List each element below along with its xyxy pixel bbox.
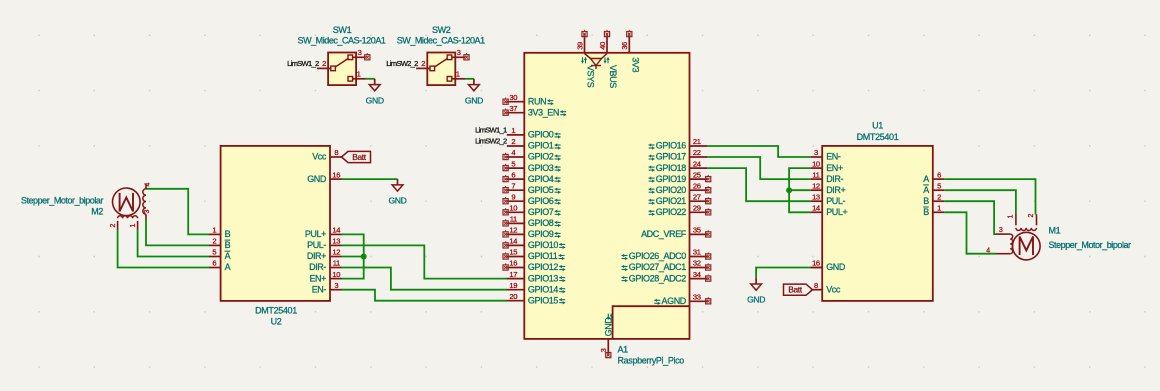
svg-text:U1: U1 <box>872 121 883 131</box>
ic A1 pin 24 GPIO18 <box>690 167 708 169</box>
switch SW1 throw contact pin1 <box>348 77 353 82</box>
ic U2 pin 1 B <box>209 233 221 235</box>
motor M1 coil pin 1 <box>1015 214 1017 225</box>
ic A1 pin 27 GPIO21 <box>690 200 708 202</box>
ic A1 pin 10 GPIO7 <box>507 211 525 213</box>
svg-text:GPIO27_ADC1: GPIO27_ADC1 <box>629 262 687 272</box>
ic A1 pin 2 GPIO1 <box>507 145 525 147</box>
switch SW2 pin 1 <box>452 78 465 80</box>
svg-text:GPIO2: GPIO2 <box>528 152 554 162</box>
wire Pico GPIO16 to U1 EN- <box>707 146 811 157</box>
ground symbol at U1 GND <box>755 278 757 284</box>
svg-text:GPIO12: GPIO12 <box>528 262 559 272</box>
motor M2 coil A winding <box>143 189 146 215</box>
svg-text:7: 7 <box>511 181 515 190</box>
svg-text:26: 26 <box>693 181 701 190</box>
switch SW1 pin 2 <box>317 67 331 69</box>
motor M2 body circle <box>113 188 141 216</box>
svg-text:6: 6 <box>511 170 515 179</box>
svg-text:GPIO10: GPIO10 <box>528 240 559 250</box>
ic U1 pin 13 PUL- <box>811 200 823 202</box>
svg-text:PUL+: PUL+ <box>305 229 326 239</box>
svg-text:A: A <box>923 185 929 195</box>
svg-text:SW1: SW1 <box>333 25 352 35</box>
switch SW1 pin 3 <box>353 56 366 58</box>
wire U2 EN- to Pico GPIO15 <box>342 290 508 301</box>
motor M2 coil pin 4 <box>145 184 147 189</box>
ic U2 pin 14 PUL+ <box>330 233 342 235</box>
svg-text:RUN: RUN <box>528 96 546 106</box>
ic U2 pin 8 Vcc <box>330 156 342 158</box>
svg-text:17: 17 <box>509 270 517 279</box>
svg-text:13: 13 <box>812 192 820 201</box>
ground symbol at SW1 pin1 <box>374 79 376 85</box>
ic U2 pin 5 A~ <box>209 256 221 258</box>
svg-text:16: 16 <box>509 259 517 268</box>
global label Batt at U1 Vcc <box>784 284 813 295</box>
ic U1 DMT25401 body <box>822 146 933 301</box>
svg-text:3: 3 <box>999 227 1003 234</box>
ic U2 pin 6 A <box>209 267 221 269</box>
wire Pico GPIO18 to U1 PUL- <box>707 168 811 201</box>
svg-text:2: 2 <box>110 224 117 228</box>
ic U2 pin 11 DIR- <box>330 267 342 269</box>
svg-text:15: 15 <box>509 248 517 257</box>
ic U1 pin 11 DIR- <box>811 178 823 180</box>
switch SW1 pin 1 <box>353 78 366 80</box>
ic U1 pin 10 EN+ <box>811 167 823 169</box>
ic A1 pin 11 GPIO8 <box>507 222 525 224</box>
svg-text:PUL-: PUL- <box>307 240 326 250</box>
svg-text:21: 21 <box>693 137 701 146</box>
ic U2 pin 12 DIR+ <box>330 256 342 258</box>
svg-text:A: A <box>225 251 231 261</box>
svg-text:1: 1 <box>1007 215 1014 219</box>
svg-text:11: 11 <box>333 259 340 268</box>
ic U1 pin 14 PUL+ <box>811 211 823 213</box>
wire SW2 pin1 to ground <box>465 78 474 80</box>
svg-text:14: 14 <box>509 237 517 246</box>
wire Pico GPIO17 to U1 DIR- <box>707 157 811 179</box>
junction on U2 DIR+ bus <box>361 254 367 260</box>
svg-text:33: 33 <box>693 293 701 302</box>
wire M2 coilA pin3 to U2 pin2 ~B <box>146 219 210 245</box>
svg-text:10: 10 <box>332 270 340 279</box>
ic A1 pin 14 GPIO10 <box>507 244 525 246</box>
svg-text:AGND: AGND <box>661 296 686 306</box>
motor M1 coil A winding <box>1016 228 1037 231</box>
svg-text:PUL+: PUL+ <box>826 207 847 217</box>
svg-text:GPIO15: GPIO15 <box>528 295 559 305</box>
svg-text:24: 24 <box>693 159 701 168</box>
wire U2 GND pin16 to ground <box>342 178 398 180</box>
svg-text:1: 1 <box>130 224 137 228</box>
motor M1 coil pin 4 <box>996 253 1010 255</box>
ic A1 pin 40 VBUS <box>606 35 608 53</box>
ic U1 pin 2 B <box>933 200 945 202</box>
svg-text:GPIO4: GPIO4 <box>528 174 554 184</box>
ic A1 pin 17 GPIO13 <box>507 278 525 280</box>
svg-text:8: 8 <box>334 148 338 157</box>
svg-text:Vcc: Vcc <box>826 284 841 294</box>
svg-text:GPIO16: GPIO16 <box>656 141 687 151</box>
wire SW1 pin1 to ground <box>366 78 375 80</box>
switch SW1 body <box>328 53 356 86</box>
switch SW1 lever <box>335 58 349 67</box>
svg-text:U2: U2 <box>271 317 282 327</box>
svg-text:DMT25401: DMT25401 <box>857 132 899 142</box>
svg-text:LimSW1_1: LimSW1_1 <box>475 126 507 135</box>
ic A1 pin 15 GPIO11 <box>507 256 525 258</box>
svg-text:12: 12 <box>509 226 517 235</box>
svg-text:LimSW2_2: LimSW2_2 <box>386 59 418 68</box>
svg-text:EN-: EN- <box>312 284 327 294</box>
wire U1 GND pin16 to ground <box>756 268 822 279</box>
ic U2 pin 10 EN+ <box>330 278 342 280</box>
ic A1 pin 9 GPIO6 <box>507 200 525 202</box>
motor M1 body circle <box>1013 232 1041 260</box>
ground symbol at U2 GND <box>397 179 399 185</box>
svg-text:GPIO8: GPIO8 <box>528 218 554 228</box>
ic U1 pin 6 A <box>933 178 945 180</box>
svg-text:GND: GND <box>366 95 384 105</box>
svg-text:1: 1 <box>357 69 361 78</box>
ic U2 pin 3 EN- <box>330 289 342 291</box>
svg-text:GPIO7: GPIO7 <box>528 207 554 217</box>
ic U1 pin 12 DIR+ <box>811 189 823 191</box>
svg-text:1: 1 <box>937 204 941 213</box>
svg-text:A: A <box>225 262 231 272</box>
svg-text:5: 5 <box>511 159 515 168</box>
svg-text:4: 4 <box>511 148 515 157</box>
svg-text:M2: M2 <box>91 207 103 217</box>
svg-text:6: 6 <box>937 170 941 179</box>
svg-text:ADC_VREF: ADC_VREF <box>641 229 687 239</box>
svg-text:3: 3 <box>814 148 818 157</box>
ic U2 pin 16 GND <box>330 178 342 180</box>
switch SW2 lever <box>434 58 448 67</box>
wire U1 EN+/DIR+/PUL+ tie bus <box>789 168 811 212</box>
ic U1 pin 16 GND <box>811 267 823 269</box>
svg-text:2: 2 <box>1028 214 1035 218</box>
svg-text:EN-: EN- <box>826 152 841 162</box>
svg-text:B: B <box>225 229 231 239</box>
motor M1 coil pin 3 <box>996 233 1010 235</box>
switch SW1 throw contact pin3 <box>348 55 353 60</box>
svg-text:GPIO19: GPIO19 <box>656 174 687 184</box>
svg-text:GPIO5: GPIO5 <box>528 185 554 195</box>
ic A1 body notch step <box>613 306 690 339</box>
svg-text:39: 39 <box>575 42 584 50</box>
motor M2 coil pin 1 <box>137 221 139 229</box>
global label Batt at U2 Vcc <box>342 151 371 162</box>
svg-text:13: 13 <box>332 237 340 246</box>
svg-text:32: 32 <box>693 259 701 268</box>
svg-text:1: 1 <box>511 126 515 135</box>
svg-text:3: 3 <box>457 48 461 57</box>
wire U1 B to M1 coil pin3 <box>944 201 996 234</box>
svg-text:A1: A1 <box>618 345 629 355</box>
svg-text:3: 3 <box>358 48 362 57</box>
svg-text:GPIO13: GPIO13 <box>528 273 559 283</box>
svg-text:36: 36 <box>620 42 629 50</box>
svg-text:30: 30 <box>509 93 517 102</box>
switch SW2 throw contact pin1 <box>447 77 452 82</box>
ic A1 pin 22 GPIO17 <box>690 156 708 158</box>
svg-text:A: A <box>923 174 929 184</box>
ic U1 pin 3 EN- <box>811 156 823 158</box>
svg-text:4: 4 <box>145 183 152 187</box>
svg-text:Stepper_Motor_bipolar: Stepper_Motor_bipolar <box>21 195 104 205</box>
svg-text:5: 5 <box>212 248 216 257</box>
svg-text:31: 31 <box>693 248 701 257</box>
ic A1 pin 33 AGND <box>690 300 708 302</box>
svg-text:GPIO0: GPIO0 <box>528 130 554 140</box>
svg-text:6: 6 <box>212 259 216 268</box>
svg-text:Batt: Batt <box>352 152 367 162</box>
svg-text:2: 2 <box>322 59 326 68</box>
svg-text:22: 22 <box>693 148 701 157</box>
ic A1 internal diode VBUS-VSYS <box>585 54 608 59</box>
wire U2 DIR- to Pico GPIO14 <box>342 268 508 290</box>
svg-text:LimSW1_2: LimSW1_2 <box>287 59 319 68</box>
svg-text:M1: M1 <box>1049 226 1061 236</box>
svg-text:VSYS: VSYS <box>586 65 596 88</box>
svg-text:DIR-: DIR- <box>826 174 843 184</box>
svg-text:GND: GND <box>465 95 483 105</box>
motor M2 coil pin 2 <box>117 221 119 229</box>
switch SW2 body <box>427 53 455 86</box>
svg-text:16: 16 <box>332 170 340 179</box>
svg-text:GND: GND <box>604 317 614 337</box>
wire U1 ~A to M1 coil pin1 <box>944 190 1016 214</box>
ic A1 pin 20 GPIO15 <box>507 300 525 302</box>
svg-text:11: 11 <box>510 215 517 224</box>
ic A1 pin 34 GPIO28_ADC2 <box>690 278 708 280</box>
motor M1 M glyph <box>1020 237 1033 256</box>
svg-text:16: 16 <box>812 259 820 268</box>
svg-text:DMT25401: DMT25401 <box>255 306 297 316</box>
ic U2 pin 2 B~ <box>209 244 221 246</box>
svg-text:3: 3 <box>334 281 338 290</box>
motor M2 coil pin 3 <box>145 214 147 219</box>
ic U2 pin 13 PUL- <box>330 244 342 246</box>
ic A1 pin 3 GND <box>607 339 609 354</box>
ic A1 pin 39 VSYS <box>584 35 586 53</box>
ic A1 pin 12 GPIO9 <box>507 233 525 235</box>
svg-text:DIR+: DIR+ <box>307 251 326 261</box>
ic A1 pin 4 GPIO2 <box>507 156 525 158</box>
svg-text:10: 10 <box>509 204 517 213</box>
svg-text:3V3_EN: 3V3_EN <box>528 107 559 117</box>
svg-text:1: 1 <box>456 69 460 78</box>
svg-text:3V3: 3V3 <box>631 57 641 72</box>
wire U2 PUL+/DIR+/EN+ tie bus <box>342 234 364 278</box>
switch SW2 pin 3 <box>452 56 465 58</box>
junction on U1 DIR+ bus <box>786 187 792 193</box>
ic A1 pin 7 GPIO5 <box>507 189 525 191</box>
switch SW2 throw contact pin3 <box>447 55 452 60</box>
svg-text:GND: GND <box>826 262 846 272</box>
svg-text:GPIO1: GPIO1 <box>528 141 554 151</box>
svg-text:5: 5 <box>937 181 941 190</box>
svg-text:9: 9 <box>511 192 515 201</box>
switch SW2 pin 2 <box>416 67 430 69</box>
svg-text:3: 3 <box>144 210 151 214</box>
wire U1 DIR+ stub <box>789 189 811 191</box>
svg-text:2: 2 <box>511 137 515 146</box>
ic A1 RaspberryPi_Pico body <box>524 53 689 339</box>
wire U1 A to M1 coil pin2 <box>944 179 1035 214</box>
svg-text:B: B <box>923 196 929 206</box>
ic A1 pin 30 RUN <box>507 101 525 103</box>
svg-text:1: 1 <box>212 226 216 235</box>
ic A1 pin 32 GPIO27_ADC1 <box>690 267 708 269</box>
motor M1 coil B winding <box>1010 234 1012 254</box>
svg-text:GPIO26_ADC0: GPIO26_ADC0 <box>629 251 687 261</box>
svg-text:19: 19 <box>509 281 517 290</box>
svg-text:34: 34 <box>693 270 701 279</box>
svg-text:EN+: EN+ <box>826 163 843 173</box>
wire M2 coilB pin2 to U2 pin6 A <box>118 229 210 268</box>
svg-text:DIR-: DIR- <box>309 262 326 272</box>
motor M2 M glyph (mirrored) <box>120 193 133 212</box>
svg-text:20: 20 <box>509 292 517 301</box>
svg-text:GND: GND <box>747 295 765 305</box>
svg-text:11: 11 <box>812 170 819 179</box>
svg-text:GPIO9: GPIO9 <box>528 229 554 239</box>
svg-text:27: 27 <box>693 192 701 201</box>
motor M2 coil B winding <box>118 216 138 219</box>
motor M1 coil pin 2 <box>1036 214 1038 225</box>
wire M2 coilB pin1 to U2 pin5 ~A <box>138 229 210 257</box>
svg-text:GPIO17: GPIO17 <box>656 152 687 162</box>
svg-text:SW_Midec_CAS-120A1: SW_Midec_CAS-120A1 <box>397 35 485 45</box>
svg-text:SW2: SW2 <box>432 25 451 35</box>
svg-text:LimSW2_2: LimSW2_2 <box>475 137 507 146</box>
wire U2 PUL- to Pico GPIO13 <box>342 245 508 278</box>
ic A1 pin 31 GPIO26_ADC0 <box>690 256 708 258</box>
svg-text:SW_Midec_CAS-120A1: SW_Midec_CAS-120A1 <box>298 35 386 45</box>
wire U2 DIR+ stub <box>342 256 364 258</box>
svg-text:VBUS: VBUS <box>608 65 618 88</box>
svg-text:GPIO3: GPIO3 <box>528 163 554 173</box>
svg-text:35: 35 <box>693 226 701 235</box>
svg-text:RaspberryPi_Pico: RaspberryPi_Pico <box>618 356 685 366</box>
svg-text:GPIO14: GPIO14 <box>528 284 559 294</box>
ic A1 pin 21 GPIO16 <box>690 145 708 147</box>
ic A1 pin 16 GPIO12 <box>507 267 525 269</box>
svg-text:2: 2 <box>212 237 216 246</box>
svg-text:29: 29 <box>693 204 701 213</box>
ic A1 pin 36 3V3 <box>628 35 630 53</box>
svg-text:4: 4 <box>986 247 990 254</box>
svg-text:GPIO11: GPIO11 <box>528 251 558 261</box>
svg-text:Stepper_Motor_bipolar: Stepper_Motor_bipolar <box>1049 240 1132 250</box>
svg-text:PUL-: PUL- <box>826 196 845 206</box>
svg-text:12: 12 <box>332 248 340 257</box>
svg-text:10: 10 <box>812 159 820 168</box>
ic A1 pin 5 GPIO3 <box>507 167 525 169</box>
ic A1 pin 6 GPIO4 <box>507 178 525 180</box>
svg-text:Vcc: Vcc <box>312 152 327 162</box>
ic A1 pin 25 GPIO19 <box>690 178 708 180</box>
svg-text:GPIO18: GPIO18 <box>656 163 687 173</box>
svg-text:GPIO22: GPIO22 <box>656 207 687 217</box>
ground symbol at SW2 pin1 <box>473 79 475 85</box>
svg-text:25: 25 <box>693 170 701 179</box>
svg-text:8: 8 <box>814 281 818 290</box>
svg-text:GND: GND <box>388 196 406 206</box>
switch SW1 common contact <box>331 66 336 71</box>
ic A1 pin 19 GPIO14 <box>507 289 525 291</box>
svg-text:GPIO6: GPIO6 <box>528 196 554 206</box>
svg-text:GPIO28_ADC2: GPIO28_ADC2 <box>629 273 687 283</box>
svg-text:40: 40 <box>598 42 607 50</box>
ic A1 pin 26 GPIO20 <box>690 189 708 191</box>
wire U1 ~B to M1 coil pin4 <box>944 212 996 253</box>
svg-text:B: B <box>225 240 231 250</box>
ic U1 pin 8 Vcc <box>811 289 823 291</box>
svg-text:2: 2 <box>421 59 425 68</box>
svg-text:14: 14 <box>812 204 820 213</box>
svg-text:37: 37 <box>509 104 517 113</box>
wire M2 coilA pin4 to U2 pin1 B <box>146 189 210 235</box>
svg-text:GND: GND <box>307 174 327 184</box>
ic U1 pin 5 A~ <box>933 189 945 191</box>
svg-text:EN+: EN+ <box>309 273 326 283</box>
svg-text:Batt: Batt <box>788 285 803 295</box>
ic A1 pin 1 GPIO0 <box>507 134 525 136</box>
ic A1 pin 37 3V3_EN <box>507 112 525 114</box>
svg-text:2: 2 <box>937 192 941 201</box>
svg-text:14: 14 <box>332 226 340 235</box>
ic U1 pin 1 B~ <box>933 211 945 213</box>
ic A1 pin 35 ADC_VREF <box>690 233 708 235</box>
svg-text:3: 3 <box>599 348 608 352</box>
switch SW2 common contact <box>430 66 435 71</box>
svg-text:DIR+: DIR+ <box>826 185 845 195</box>
svg-text:B: B <box>923 207 929 217</box>
ic U2 DMT25401 body <box>221 146 330 301</box>
svg-text:GPIO21: GPIO21 <box>656 196 687 206</box>
svg-text:GPIO20: GPIO20 <box>656 185 687 195</box>
svg-text:12: 12 <box>812 181 820 190</box>
ic A1 pin 29 GPIO22 <box>690 211 708 213</box>
